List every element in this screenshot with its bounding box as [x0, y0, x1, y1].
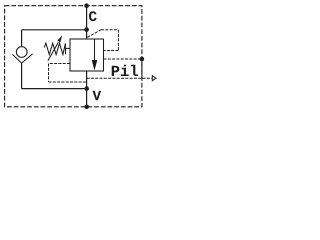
- pilot line: from valve box to Pil port: [104, 58, 142, 60]
- check valve V1: seat: [12, 54, 32, 63]
- pilot line: bottom horizontal to external Pil port: [87, 77, 153, 79]
- relief valve main stage box U1: [70, 39, 104, 71]
- flow path arrow inside valve box: [94, 39, 96, 62]
- pilot line: diagonal tap from main line: [87, 30, 101, 38]
- node C junction dot on top border: [84, 3, 89, 8]
- drain line: bottom horizontal to main line: [49, 81, 87, 83]
- port label Pil: [112, 65, 138, 76]
- wire: bottom rail from check valve to main line: [22, 88, 87, 90]
- port label V: [92, 91, 101, 101]
- spring adjustment arrow: [48, 42, 58, 60]
- node: junction of check-valve branch with main line: [84, 27, 89, 32]
- node Pil junction dot on right border: [140, 57, 145, 62]
- wire: pilot drop from junction to Pil exit line (solid over border): [141, 59, 143, 78]
- Pil port open arrowhead: [152, 76, 156, 81]
- enclosure border (dashed cartridge envelope): [5, 6, 142, 107]
- port label C: [89, 11, 97, 21]
- wire: main line from C down to valve box: [86, 6, 88, 40]
- node V junction dot on bottom border: [84, 105, 89, 110]
- pilot line: top horizontal: [101, 29, 118, 31]
- wire: check valve branch vertical lower: [21, 63, 23, 89]
- node: junction of bottom rail with main line: [84, 86, 89, 91]
- pilot line: right vertical: [117, 30, 119, 51]
- wire: main line from valve box down to bottom border: [86, 71, 88, 107]
- check valve V1: ball: [16, 47, 27, 58]
- adjustable spring: [44, 43, 65, 54]
- wire: top rail to check valve branch: [22, 29, 87, 31]
- drain line: left vertical: [48, 64, 50, 83]
- wire: check valve branch vertical upper: [21, 30, 23, 47]
- pilot line: return to valve box right side: [104, 50, 119, 52]
- drain line: from valve box left side: [49, 63, 71, 65]
